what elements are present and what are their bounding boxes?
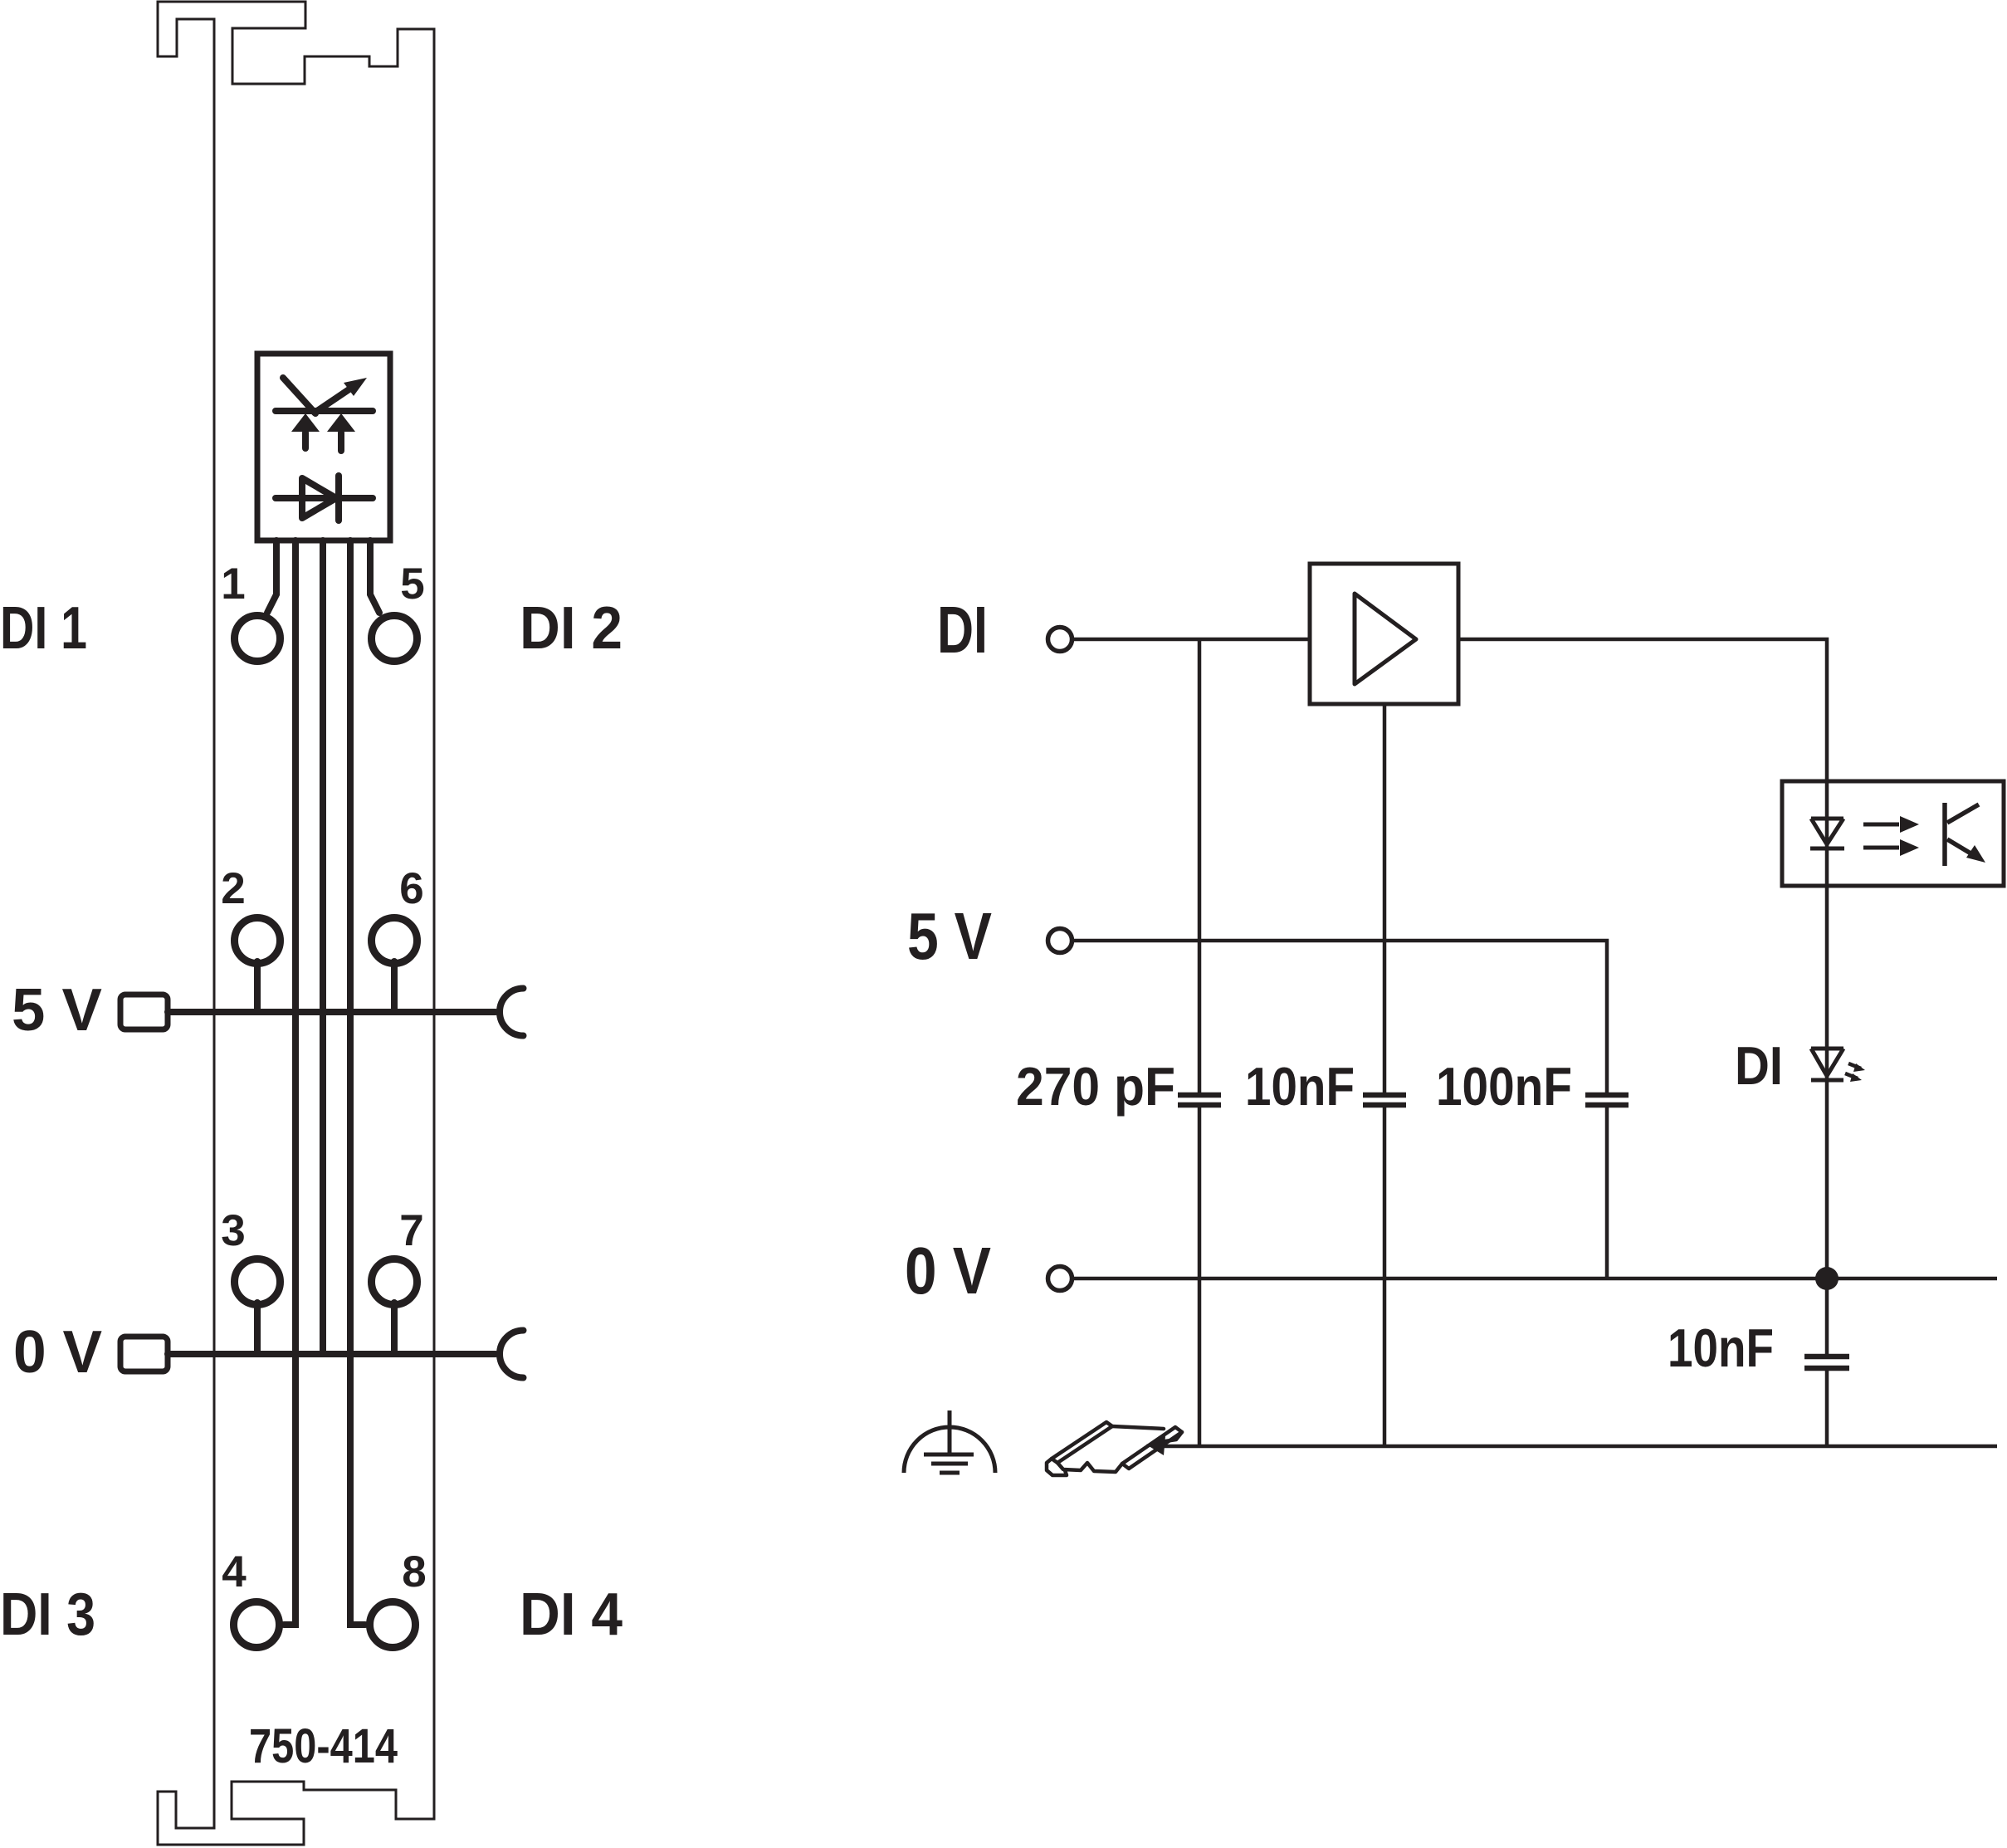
svg-text:7: 7 [399, 1206, 423, 1255]
svg-text:0 V: 0 V [905, 1234, 991, 1308]
svg-text:DI 4: DI 4 [520, 1582, 623, 1648]
svg-text:8: 8 [402, 1547, 426, 1596]
svg-text:DI 3: DI 3 [0, 1582, 95, 1648]
svg-text:270 pF: 270 pF [1016, 1056, 1175, 1117]
svg-text:1: 1 [221, 560, 245, 609]
svg-text:DI: DI [937, 593, 988, 667]
svg-text:6: 6 [399, 864, 423, 913]
svg-text:100nF: 100nF [1436, 1056, 1572, 1117]
svg-text:0 V: 0 V [13, 1319, 102, 1386]
svg-text:5 V: 5 V [12, 977, 102, 1044]
svg-text:DI: DI [1735, 1035, 1783, 1096]
svg-text:10nF: 10nF [1245, 1056, 1355, 1117]
svg-text:DI 1: DI 1 [0, 595, 87, 662]
svg-text:5 V: 5 V [907, 899, 992, 973]
svg-text:3: 3 [221, 1206, 245, 1255]
svg-text:10nF: 10nF [1668, 1318, 1774, 1378]
svg-text:750-414: 750-414 [249, 1719, 398, 1773]
svg-text:DI 2: DI 2 [520, 595, 623, 662]
svg-text:5: 5 [400, 560, 424, 609]
svg-text:2: 2 [221, 864, 245, 913]
svg-text:4: 4 [222, 1547, 247, 1596]
